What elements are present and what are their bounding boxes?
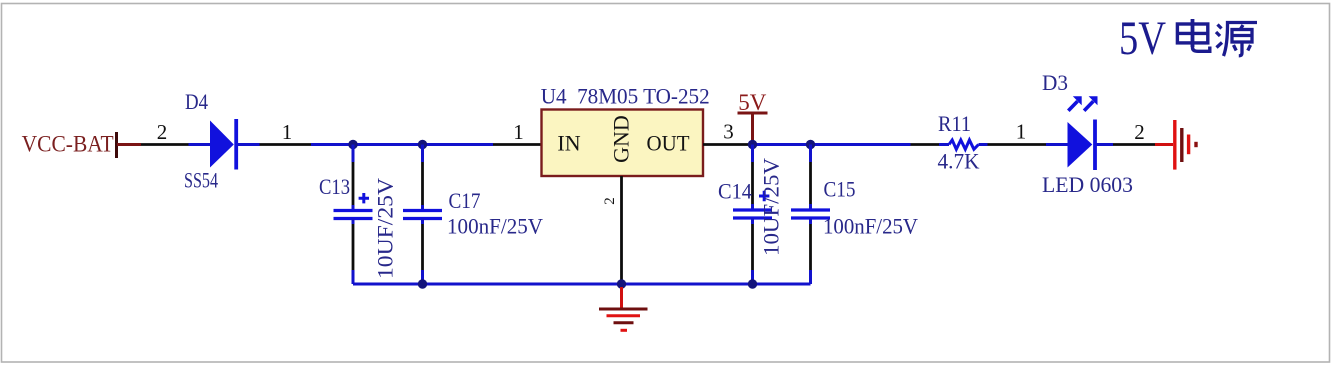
title character 电 bbox=[1177, 19, 1209, 51]
svg-text:100nF/25V: 100nF/25V bbox=[447, 214, 543, 239]
svg-text:SS54: SS54 bbox=[184, 168, 218, 193]
wire VCC-BAT to pin 2 (dark red) bbox=[117, 143, 141, 146]
wire U4 out to R11 bbox=[753, 143, 911, 146]
svg-text:5V: 5V bbox=[738, 90, 767, 115]
svg-text:10UF/25V: 10UF/25V bbox=[759, 158, 784, 256]
pin 3 of U4 (black) bbox=[703, 143, 753, 146]
junction node at C17 bbox=[418, 140, 427, 149]
junction node C17 bottom bbox=[418, 279, 427, 288]
capacitor C15 bbox=[791, 145, 830, 285]
svg-text:C13: C13 bbox=[319, 174, 350, 199]
svg-text:R11: R11 bbox=[938, 111, 971, 136]
svg-text:1: 1 bbox=[513, 120, 524, 144]
svg-text:4.7K: 4.7K bbox=[938, 149, 980, 174]
wire D3 to ground (red) bbox=[1155, 143, 1173, 146]
pin 1 of D4 (black) bbox=[260, 143, 312, 146]
title character 源 bbox=[1216, 23, 1257, 57]
svg-text:2: 2 bbox=[602, 197, 618, 205]
svg-text:C15: C15 bbox=[824, 177, 856, 202]
junction node at 5V/C14 bbox=[748, 140, 757, 149]
svg-text:VCC-BAT: VCC-BAT bbox=[22, 131, 114, 156]
bottom ground rail wire bbox=[353, 283, 811, 286]
pin 2 of D4 (black) bbox=[141, 143, 189, 146]
svg-text:3: 3 bbox=[723, 120, 734, 144]
ground symbol (right, rotated) bbox=[1175, 120, 1196, 170]
svg-text:LED 0603: LED 0603 bbox=[1042, 172, 1133, 197]
svg-text:C17: C17 bbox=[449, 188, 481, 213]
svg-text:C14: C14 bbox=[718, 179, 752, 204]
pin of R11 / pin 1 of D3 (black) bbox=[988, 143, 1047, 146]
svg-text:U4 78M05 TO-252: U4 78M05 TO-252 bbox=[541, 83, 710, 108]
capacitor C13 bbox=[334, 145, 373, 285]
power port 5V bbox=[738, 90, 768, 145]
svg-text:GND: GND bbox=[609, 115, 634, 163]
regulator U1 box bbox=[542, 110, 704, 177]
diode D4 bbox=[189, 119, 260, 170]
svg-text:1: 1 bbox=[1016, 120, 1027, 144]
capacitor C14 bbox=[733, 145, 772, 285]
pin 2 of U4 GND (black, vertical) bbox=[620, 176, 623, 284]
pin 2 of D3 (black) bbox=[1113, 143, 1155, 146]
svg-text:2: 2 bbox=[157, 120, 168, 144]
LED D3 bbox=[1046, 96, 1113, 170]
ground symbol (bottom) bbox=[599, 287, 648, 330]
svg-text:D3: D3 bbox=[1042, 70, 1068, 95]
svg-text:D4: D4 bbox=[185, 89, 208, 114]
junction node at C15 bbox=[806, 140, 815, 149]
svg-text:1: 1 bbox=[282, 120, 293, 144]
port VCC-BAT bbox=[22, 131, 117, 158]
resistor R11 bbox=[911, 140, 988, 149]
svg-text:5V: 5V bbox=[1119, 12, 1166, 65]
svg-text:100nF/25V: 100nF/25V bbox=[823, 214, 918, 239]
svg-text:OUT: OUT bbox=[647, 131, 691, 156]
svg-text:IN: IN bbox=[557, 131, 580, 156]
svg-text:10UF/25V: 10UF/25V bbox=[373, 178, 398, 279]
capacitor C17 bbox=[403, 145, 442, 285]
pin 1 of U4 (black) bbox=[493, 143, 542, 146]
junction node C14 bottom bbox=[748, 279, 757, 288]
junction node at C13 bbox=[348, 140, 357, 149]
wire D4 to U4 input bbox=[311, 143, 493, 146]
junction node GND pin bottom bbox=[617, 279, 626, 288]
svg-text:2: 2 bbox=[1134, 120, 1145, 144]
